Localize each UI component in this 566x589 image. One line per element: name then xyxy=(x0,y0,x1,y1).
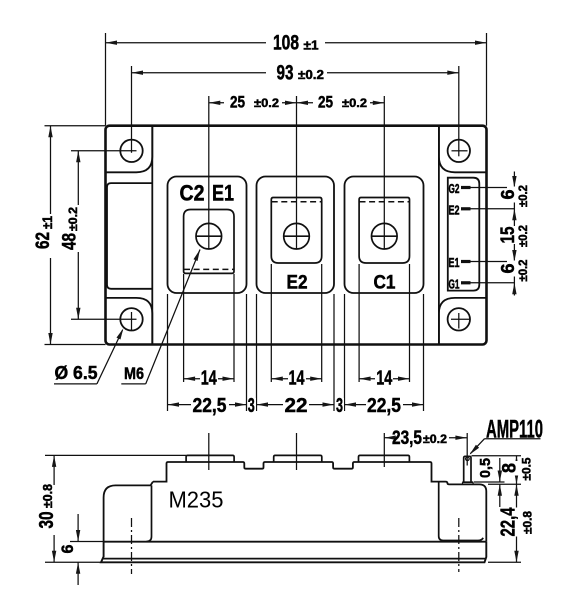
corner boss top-left xyxy=(106,126,153,173)
svg-text:0,5: 0,5 xyxy=(477,458,494,478)
screw terminal 2 xyxy=(284,223,310,249)
arrows dim 23.5 xyxy=(384,436,396,440)
arrow AMP110 leader xyxy=(468,445,479,456)
left inner edge line xyxy=(151,126,153,345)
corner boss top-right xyxy=(439,126,487,173)
terminal pad 2 (side) xyxy=(274,455,322,462)
control pins marks G2 E2 E1 G1 xyxy=(461,186,471,189)
svg-text:3: 3 xyxy=(336,395,343,417)
block 1 dashed line xyxy=(184,268,234,270)
dim 23.5 line xyxy=(384,437,390,439)
case outline left xyxy=(104,482,153,542)
svg-text:23,5: 23,5 xyxy=(392,428,422,449)
dim 23.5 right extension xyxy=(466,433,468,466)
svg-text:3: 3 xyxy=(248,395,255,417)
terminal block 1 outer (C2/E1) xyxy=(168,177,247,294)
dim 6 arrows lines xyxy=(77,514,79,542)
block 1 inner pad xyxy=(184,210,234,274)
svg-text:Ø 6.5: Ø 6.5 xyxy=(55,363,98,383)
AMP110 control pin (side) xyxy=(464,456,471,482)
svg-text:±0.2: ±0.2 xyxy=(66,207,80,231)
svg-text:M6: M6 xyxy=(124,364,144,383)
screw terminal 1 xyxy=(196,223,222,249)
arrows dim 6 (base) xyxy=(76,530,80,542)
svg-text:±0.8: ±0.8 xyxy=(41,484,55,508)
arrows dim 22.4 xyxy=(514,484,518,496)
left recess window xyxy=(107,183,152,289)
ledge extension xyxy=(488,483,521,485)
svg-text:6: 6 xyxy=(498,264,518,274)
terminal block 3 outer (C1) xyxy=(345,177,424,294)
dim 8 extension + line xyxy=(472,455,522,457)
leader M6 xyxy=(121,383,145,385)
mounting hole top-left xyxy=(120,140,142,162)
arrows dim 30 xyxy=(52,455,56,467)
control pin leaders xyxy=(471,187,515,189)
svg-text:14: 14 xyxy=(289,367,306,389)
arrows dim 14 xyxy=(184,377,196,381)
dim 22.4 line xyxy=(516,484,518,562)
svg-text:±0.2: ±0.2 xyxy=(254,96,279,110)
case left step inner xyxy=(147,485,152,541)
mounting hole top-right xyxy=(448,140,470,162)
terminal pad 1 (side) xyxy=(186,455,234,462)
dim 30 extensions xyxy=(45,454,186,456)
svg-text:C2: C2 xyxy=(180,181,205,206)
arrows dim 8 xyxy=(514,456,518,468)
control terminal strip xyxy=(448,178,480,291)
svg-text:E2: E2 xyxy=(287,273,308,294)
screw terminal 3 xyxy=(372,223,398,249)
svg-text:22: 22 xyxy=(285,395,308,417)
svg-text:G1: G1 xyxy=(449,277,460,291)
base plate xyxy=(101,542,486,563)
block 3 inner pad xyxy=(359,198,409,264)
dim 25 extension lines xyxy=(208,96,210,249)
svg-text:6: 6 xyxy=(58,545,77,554)
terminal block 2 outer (E2) xyxy=(257,177,335,294)
dim 62 line xyxy=(50,126,52,345)
dim 108 extension lines xyxy=(105,33,107,126)
arrows right pin dims xyxy=(512,176,516,188)
dim 62 extensions xyxy=(45,125,106,127)
svg-text:8: 8 xyxy=(500,463,521,473)
svg-text:14: 14 xyxy=(376,367,393,389)
dim 14 lines xyxy=(184,378,234,380)
dim 93 line xyxy=(132,72,267,74)
svg-text:22,5: 22,5 xyxy=(193,395,227,417)
svg-text:AMP110: AMP110 xyxy=(486,416,543,444)
mounting hole bottom-left xyxy=(120,308,142,330)
svg-text:±0.2: ±0.2 xyxy=(423,432,447,446)
right pin dims line xyxy=(513,172,515,296)
dim 30 line xyxy=(53,455,55,562)
svg-text:25: 25 xyxy=(230,93,245,112)
right inner edge line xyxy=(438,126,440,345)
mounting hole bottom-right xyxy=(448,308,470,330)
arrows dim 48 xyxy=(76,151,80,163)
module body outline (top view) xyxy=(106,126,487,345)
svg-text:±0.8: ±0.8 xyxy=(521,511,535,534)
svg-text:108: 108 xyxy=(273,32,299,55)
block 2 inner pad xyxy=(271,198,321,264)
corner boss bottom-left xyxy=(106,298,153,345)
svg-text:±1: ±1 xyxy=(304,38,319,53)
arrows dim 108 xyxy=(106,41,118,45)
hole crosshairs xyxy=(71,150,137,152)
arrow M6 leader xyxy=(193,249,202,261)
svg-text:93: 93 xyxy=(277,62,294,85)
svg-text:25: 25 xyxy=(318,93,333,112)
chain dim line xyxy=(168,404,247,406)
case right inner step xyxy=(439,482,484,541)
dim 14 extensions xyxy=(183,274,185,382)
svg-text:±0.2: ±0.2 xyxy=(516,185,530,207)
arrow dia 6.5 leader xyxy=(116,327,125,339)
svg-text:±0.2: ±0.2 xyxy=(298,67,324,82)
svg-text:22,5: 22,5 xyxy=(367,395,401,417)
svg-text:30: 30 xyxy=(36,512,58,529)
leader AMP110 xyxy=(470,439,484,454)
corner boss bottom-right xyxy=(439,298,487,345)
svg-text:E1: E1 xyxy=(449,256,460,270)
arrows dim 25 xyxy=(209,101,221,105)
arrows dim 93 xyxy=(132,71,144,75)
svg-text:±0.5: ±0.5 xyxy=(520,457,534,480)
svg-text:±1: ±1 xyxy=(39,216,55,229)
svg-text:C1: C1 xyxy=(374,273,396,294)
dim 48 line xyxy=(77,151,79,319)
chain extensions xyxy=(167,294,169,411)
svg-text:E1: E1 xyxy=(212,181,234,206)
svg-text:6: 6 xyxy=(498,190,518,200)
dim 0.5 lines xyxy=(499,458,501,482)
block 2 dashed line xyxy=(272,201,322,203)
hole centerline left (dash-dot) xyxy=(131,518,133,574)
svg-text:±0.2: ±0.2 xyxy=(516,225,530,247)
terminal pad 3 (side) xyxy=(359,455,410,462)
hole centerline right (dash-dot) xyxy=(458,518,460,572)
dim 108 line xyxy=(106,42,267,44)
block 3 dashed line xyxy=(360,201,410,203)
svg-text:±0.2: ±0.2 xyxy=(516,259,530,281)
leader dia 6.5 xyxy=(54,383,97,385)
arrows dim 0.5 xyxy=(498,471,502,483)
svg-text:M235: M235 xyxy=(169,487,224,513)
svg-text:14: 14 xyxy=(201,367,218,389)
svg-text:48: 48 xyxy=(60,233,81,250)
svg-text:±0.2: ±0.2 xyxy=(342,96,367,110)
terminal centerlines above side view xyxy=(208,433,210,470)
svg-text:E2: E2 xyxy=(449,203,460,217)
svg-text:62: 62 xyxy=(33,232,54,249)
text background masks xyxy=(42,95,524,537)
svg-text:G2: G2 xyxy=(449,182,460,196)
svg-text:22,4: 22,4 xyxy=(498,507,520,537)
case top and boss profile xyxy=(153,462,486,542)
dim 25 lines xyxy=(209,102,297,104)
arrows chain 22.5/22/22.5 xyxy=(168,402,180,406)
arrows dim 62 xyxy=(48,126,52,138)
dim 6 extension xyxy=(70,541,104,543)
